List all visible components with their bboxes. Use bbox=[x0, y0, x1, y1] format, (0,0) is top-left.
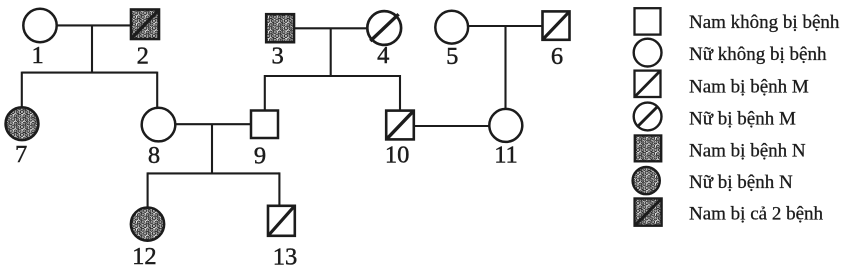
circle II-7 (female disease N: stipple) bbox=[6, 107, 39, 140]
square II-10 (male disease M: diagonal) bbox=[386, 111, 414, 140]
square I-3 (male disease N: stipple) bbox=[266, 14, 294, 42]
svg-text:3: 3 bbox=[271, 42, 283, 69]
svg-text:9: 9 bbox=[254, 142, 266, 169]
svg-text:Nam bị bệnh M: Nam bị bệnh M bbox=[689, 76, 809, 97]
svg-text:7: 7 bbox=[15, 141, 27, 168]
square I-2 (male with both diseases: stipple + diagonal) bbox=[131, 10, 159, 40]
circle I-5 (unaffected female) bbox=[435, 11, 468, 44]
circle II-11 (unaffected female) bbox=[489, 109, 522, 142]
svg-text:Nữ bị bệnh N: Nữ bị bệnh N bbox=[689, 172, 793, 193]
svg-text:13: 13 bbox=[273, 244, 298, 270]
wire: drop from couple 8-9 bbox=[211, 124, 213, 173]
wire: couple line 10-11 bbox=[414, 125, 490, 127]
svg-text:Nữ bị bệnh M: Nữ bị bệnh M bbox=[689, 109, 796, 130]
svg-text:Nam bị cả 2 bệnh: Nam bị cả 2 bệnh bbox=[689, 204, 824, 225]
svg-text:1: 1 bbox=[31, 42, 43, 69]
svg-text:10: 10 bbox=[385, 142, 410, 169]
wire: couple line 8-9 bbox=[176, 123, 251, 125]
wire: couple line 5-6 bbox=[468, 25, 542, 27]
circle III-12 (female disease N: stipple) bbox=[131, 208, 164, 241]
legend symbol: male both diseases stippled square+diagonal bbox=[635, 199, 662, 226]
legend symbol: unaffected female circle bbox=[634, 39, 662, 67]
wire: vertical to individual 10 bbox=[399, 75, 401, 111]
wire: sibling bar children of 8-9 bbox=[148, 172, 280, 174]
wire: couple line 3-4 bbox=[294, 27, 368, 29]
wire: drop from couple 3-4 bbox=[330, 28, 332, 76]
svg-text:8: 8 bbox=[148, 142, 160, 169]
wire: couple line 1-2 bbox=[57, 24, 131, 26]
wire: vertical to individual 8 bbox=[156, 72, 158, 108]
svg-text:11: 11 bbox=[494, 142, 518, 169]
legend symbol: male disease N stippled square bbox=[635, 136, 661, 162]
wire: sibling bar children of 3-4 bbox=[265, 75, 400, 77]
svg-text:4: 4 bbox=[377, 42, 389, 69]
svg-text:2: 2 bbox=[137, 43, 149, 70]
circle I-1 (unaffected female) bbox=[23, 9, 56, 42]
svg-text:Nữ không bị bệnh: Nữ không bị bệnh bbox=[689, 44, 827, 65]
wire: drop from couple 1-2 bbox=[91, 25, 93, 72]
wire: vertical to individual 9 bbox=[264, 75, 266, 111]
wire: sibling bar children of 1-2 bbox=[22, 72, 157, 74]
square I-6 (male disease M: diagonal) bbox=[543, 11, 570, 39]
legend symbol: unaffected male square bbox=[635, 8, 661, 34]
square III-13 (male disease M: diagonal) bbox=[268, 206, 295, 236]
svg-text:6: 6 bbox=[551, 43, 563, 70]
legend symbol: female disease M circle+diagonal bbox=[634, 103, 662, 131]
legend symbol: female disease N stippled circle bbox=[633, 167, 660, 194]
svg-text:Nam không bị bệnh: Nam không bị bệnh bbox=[689, 12, 840, 33]
square II-9 (unaffected male) bbox=[251, 111, 278, 139]
svg-text:5: 5 bbox=[446, 43, 458, 70]
svg-text:12: 12 bbox=[132, 243, 157, 270]
circle I-4 (female disease M: diagonal) bbox=[367, 11, 401, 45]
legend symbol: male disease M square+diagonal bbox=[635, 71, 661, 97]
wire: drop from couple 5-6 to individual 11 bbox=[504, 26, 506, 109]
wire: vertical to individual 7 bbox=[21, 72, 23, 107]
wire: vertical to individual 13 bbox=[278, 172, 280, 205]
circle II-8 (unaffected female) bbox=[142, 108, 176, 142]
legend text rows bbox=[689, 12, 840, 225]
wire: vertical to individual 12 bbox=[147, 172, 149, 207]
svg-text:Nam bị bệnh N: Nam bị bệnh N bbox=[689, 141, 806, 162]
labels: individual numbers bbox=[15, 42, 563, 270]
